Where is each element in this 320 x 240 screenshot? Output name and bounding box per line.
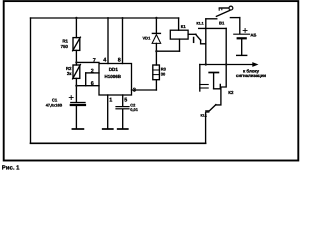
- svg-text:C1: C1: [52, 97, 58, 102]
- svg-text:6: 6: [91, 81, 94, 87]
- svg-text:Н1006В: Н1006В: [105, 74, 122, 79]
- svg-text:0,01: 0,01: [130, 107, 138, 112]
- svg-text:4: 4: [103, 58, 106, 64]
- svg-text:47,0х16В: 47,0х16В: [46, 103, 63, 107]
- svg-text:К2: К2: [228, 90, 234, 95]
- svg-text:1: 1: [109, 98, 112, 104]
- svg-text:К1.1: К1.1: [196, 22, 203, 26]
- svg-text:В1: В1: [219, 20, 225, 25]
- svg-text:30: 30: [161, 72, 166, 77]
- svg-text:5: 5: [124, 98, 127, 104]
- svg-text:8: 8: [118, 58, 121, 64]
- svg-text:Рис. 1: Рис. 1: [2, 165, 20, 172]
- svg-text:сигнализации: сигнализации: [236, 73, 267, 78]
- svg-text:VD1: VD1: [143, 35, 152, 40]
- svg-text:DD1: DD1: [109, 67, 119, 72]
- svg-text:3: 3: [133, 88, 136, 94]
- svg-text:АБ: АБ: [250, 33, 256, 38]
- svg-text:К1: К1: [181, 24, 187, 29]
- svg-text:7: 7: [93, 58, 96, 64]
- svg-text:750: 750: [61, 44, 69, 49]
- svg-text:2: 2: [91, 68, 94, 74]
- svg-text:К2.1: К2.1: [201, 114, 208, 118]
- svg-text:2к: 2к: [67, 71, 72, 76]
